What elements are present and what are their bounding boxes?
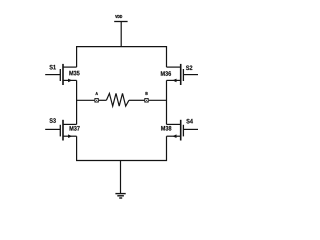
label M38 (161, 126, 171, 131)
drain leg M37 (63, 123, 77, 125)
channel bar M38 (180, 120, 182, 141)
source arrow M38 (172, 134, 176, 138)
transistor M35 (45, 64, 76, 85)
source leg M38 (167, 135, 181, 137)
gate bar M38 (182, 125, 184, 137)
source leg M35 (63, 79, 77, 81)
channel bar M37 (62, 120, 64, 141)
wire node A stub (77, 99, 95, 101)
ground bar 2 (117, 195, 124, 197)
source arrow M35 (68, 79, 72, 83)
source arrow M36 (172, 79, 176, 83)
label M37 (70, 126, 80, 131)
label S4 (186, 119, 193, 124)
VDD power symbol (114, 21, 127, 23)
gate bar M35 (59, 69, 61, 81)
wire ground stem (120, 161, 122, 194)
transistor M37 (45, 120, 76, 141)
label S1 (49, 65, 55, 70)
wire top rail (77, 47, 167, 68)
channel bar M36 (180, 64, 182, 85)
wire right branch (M36 source to M38 drain) (166, 80, 168, 124)
ground bar 3 (119, 197, 122, 199)
transistor M36 (167, 64, 199, 85)
resistor (106, 93, 128, 106)
gate bar M37 (59, 125, 61, 137)
wire bottom rail (77, 136, 167, 160)
drain leg M35 (63, 66, 77, 68)
source arrow M37 (68, 134, 72, 138)
label node B (146, 92, 148, 95)
label M35 (69, 71, 79, 76)
channel bar M35 (62, 64, 64, 85)
VDD label (115, 15, 122, 18)
wire gate of M38 (184, 128, 198, 130)
source leg M37 (63, 135, 77, 137)
drain leg M38 (167, 123, 181, 125)
wire left branch (M35 source to M37 drain) (76, 80, 78, 124)
node B port (144, 98, 148, 102)
label M36 (161, 71, 171, 76)
node A port (94, 98, 98, 102)
wire gate of M35 (45, 74, 60, 76)
source leg M36 (167, 79, 181, 81)
wire A to resistor (99, 99, 107, 101)
ground (115, 194, 125, 198)
label S3 (49, 118, 55, 123)
drain leg M36 (167, 66, 181, 68)
wire B stub (149, 99, 167, 101)
wire gate of M36 (184, 74, 198, 76)
label node A (95, 92, 97, 95)
transistor M38 (167, 120, 199, 141)
label S2 (186, 65, 192, 70)
wire VDD stem (120, 22, 122, 47)
ground bar 1 (115, 193, 125, 195)
gate bar M36 (182, 69, 184, 81)
wire resistor to B (129, 99, 145, 101)
wire gate of M37 (45, 128, 60, 130)
